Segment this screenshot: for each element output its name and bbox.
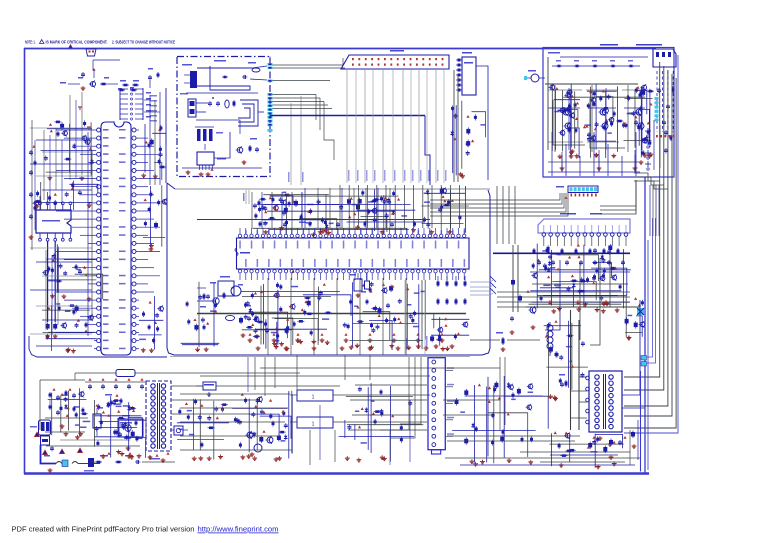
left board vertical wires	[32, 120, 92, 336]
top border connector stub	[86, 49, 96, 56]
tuner area components	[529, 244, 631, 314]
bridge rectifier cluster	[48, 388, 90, 439]
cyan connector strip CN203	[268, 57, 273, 132]
under IC201 right lower	[430, 317, 469, 351]
EEPROM bus wires	[40, 192, 58, 338]
IC101 left pin wires	[56, 130, 94, 333]
CC caps trio	[195, 127, 223, 141]
CC micro IC U701	[197, 152, 226, 176]
RGB bus to CRT board	[430, 193, 568, 216]
CRT extra parts	[555, 90, 645, 155]
ferrite bead B601	[524, 70, 545, 82]
right border inner line	[647, 240, 649, 470]
degauss relay part	[470, 332, 540, 351]
main board outline left edge	[167, 183, 175, 189]
wire from U301 right	[476, 66, 488, 180]
pre-video cluster above IC201	[252, 189, 410, 236]
CRT spark gap cluster	[645, 120, 673, 170]
power board top rail	[170, 356, 470, 358]
regulator IC901	[196, 382, 228, 396]
rail above IC201	[197, 219, 430, 221]
tuner bundle from board	[497, 186, 515, 218]
IC101 right pin wires	[139, 138, 160, 292]
CC transistor Q701	[236, 138, 259, 164]
bridge area vertical chains	[45, 388, 88, 432]
IC102 EEPROM	[36, 202, 72, 241]
IC101 right lower cluster	[138, 296, 163, 352]
upper mid extra verticals	[305, 188, 390, 228]
power top rail	[40, 373, 85, 430]
power section vertical labels	[344, 420, 356, 440]
power mosfet Q901	[118, 415, 138, 450]
warning triangles AC area	[34, 432, 82, 455]
vertical deflection cluster	[339, 383, 424, 462]
crystal X202	[350, 273, 370, 297]
schematic outer border	[24, 48, 656, 50]
tuner extra 2	[538, 247, 627, 307]
AC small parts	[44, 446, 54, 472]
fuse F901	[56, 462, 100, 464]
CRT board cap row	[556, 60, 634, 67]
bottom long rail	[352, 395, 500, 422]
upper-left long verticals	[70, 92, 82, 180]
board edge exit wires	[470, 280, 493, 295]
lower bus to right edge	[497, 292, 630, 307]
audio vertical feeds	[248, 357, 275, 396]
left components cluster B	[33, 181, 98, 210]
under-IC201 left cluster	[242, 316, 292, 351]
bus to CRT right	[600, 180, 636, 214]
below FBT cluster	[549, 431, 623, 469]
svg-text:NOTE: 1.: NOTE: 1.	[25, 40, 36, 45]
svg-text:2. SUBJECT TO CHANGE WITHOUT N: 2. SUBJECT TO CHANGE WITHOUT NOTICE	[112, 40, 175, 45]
left components cluster C	[42, 244, 102, 301]
CRT board labels	[548, 44, 662, 54]
above IC201 left verticals	[252, 192, 302, 228]
left board outline bottom	[29, 336, 167, 357]
power extra rails	[46, 440, 140, 446]
resistor grid under IC201 right	[437, 276, 467, 305]
left components cluster D	[42, 303, 97, 353]
bottom right extra cluster wires	[540, 420, 638, 465]
left border component chain	[29, 145, 37, 239]
CC concentric loops	[238, 100, 264, 126]
svg-text:1: 1	[312, 395, 315, 401]
heater wires	[447, 435, 580, 437]
mid power verticals	[310, 400, 410, 465]
above IC201 left extra	[257, 192, 339, 232]
filter box FL902	[290, 417, 352, 428]
CRT socket connector	[653, 49, 676, 67]
B+ rail wires	[171, 386, 340, 414]
IC drive vertical DIP U301	[456, 52, 476, 95]
rail above IC201 components	[259, 221, 395, 227]
above IC201 right extra	[347, 190, 425, 232]
bottom right long rails	[445, 452, 640, 465]
main board outline top edge	[175, 188, 490, 190]
flyback transformer T601	[586, 371, 622, 446]
blue pair to cyan squares	[647, 218, 656, 363]
svg-text:http://www.fineprint.com: http://www.fineprint.com	[198, 525, 279, 534]
mid-left column cluster	[143, 185, 167, 251]
opto coupler PC901	[170, 426, 188, 435]
tuner down wires	[545, 258, 600, 345]
SMPS primary cluster	[95, 396, 146, 459]
tuner extra parts	[530, 248, 630, 304]
CRT amp stage R cluster	[549, 83, 581, 158]
red T marks near CN203	[78, 107, 91, 130]
switching transformer T901	[146, 381, 171, 462]
tuner left dark verticals	[510, 245, 536, 334]
CRT amp stage G cluster	[587, 85, 624, 158]
video bus branch	[425, 116, 430, 186]
filter box FL901	[290, 390, 352, 401]
close-caption sub-board dash-dot outline	[177, 57, 270, 177]
wires between IC101 and CC box	[144, 92, 160, 185]
IC201 jungle IC	[235, 228, 469, 280]
resonator cluster	[141, 124, 166, 180]
FBT left edge parts	[559, 374, 568, 387]
right edge cluster	[625, 295, 645, 340]
lower bus wires	[200, 368, 500, 376]
STR power IC box	[118, 419, 143, 437]
CRT socket cyan pins	[655, 97, 659, 122]
key matrix ladder SW101-SW107	[120, 80, 151, 120]
IC201 pin number marks	[245, 230, 465, 234]
degauss coil	[547, 320, 558, 356]
CC line-in loop circuit	[197, 60, 267, 90]
connector CN201 (AV input)	[341, 50, 449, 69]
CC wire web	[182, 93, 262, 174]
left lower extra	[46, 248, 58, 335]
CRT amp stage B cluster	[624, 84, 655, 158]
IC101 microcontroller	[94, 122, 139, 355]
close caption output wires	[273, 58, 346, 160]
power rails extra	[180, 394, 292, 450]
CRT board outline	[543, 48, 674, 178]
tuner connector CN401	[538, 213, 630, 246]
left vertical feeds	[297, 355, 505, 430]
wires left of CN601	[380, 357, 421, 438]
below IC201 extra 2	[256, 286, 327, 345]
sound IF cluster	[450, 101, 485, 178]
transistor Q101 cluster	[60, 60, 137, 91]
primary extra	[94, 400, 137, 456]
cyan connector CN501	[556, 186, 598, 199]
cyan squares near FBT	[641, 356, 647, 367]
IF input cluster	[181, 282, 220, 352]
critical mark triangle on border	[68, 45, 73, 49]
board divider line	[165, 88, 167, 183]
svg-text:PDF created with FinePrint pdf: PDF created with FinePrint pdfFactory Pr…	[12, 525, 195, 534]
CC mid connector	[180, 93, 210, 117]
CC line-in connector	[182, 64, 197, 88]
video components under IC201 left	[241, 282, 351, 346]
IC201 bottom long wires	[268, 278, 406, 355]
line caps row	[85, 378, 145, 389]
AC line filter L901	[75, 370, 300, 377]
CC mid caps	[208, 97, 236, 108]
bundle staircase from CRT board	[634, 173, 668, 189]
audio transistors	[246, 430, 274, 456]
above IC201 extra parts	[253, 195, 329, 234]
degauss thermistor cluster	[90, 452, 175, 464]
light drops below IC201	[405, 280, 428, 354]
cyan mark CN502	[637, 308, 644, 315]
right mid vertical bundle	[650, 185, 659, 236]
stage bottom drops	[562, 150, 635, 172]
CRT feed wire bundle	[624, 55, 678, 433]
IC201 top pin wires	[340, 185, 460, 228]
CRT socket pin field	[656, 71, 675, 137]
degauss cluster	[544, 321, 588, 401]
left board extra verticals 2	[44, 128, 62, 210]
main board right hatch	[490, 276, 496, 282]
focus wires	[622, 300, 640, 395]
IF input wires with labels	[243, 190, 249, 204]
AC line filter inlet	[30, 420, 51, 445]
left board horizontal wires	[30, 128, 92, 346]
sync cluster above IC201 right	[421, 186, 468, 234]
extra CRT stage wires	[555, 85, 644, 172]
below IC201 extra parts	[349, 282, 423, 349]
vertical bundle to tuner	[497, 218, 515, 244]
ground rail under IC201	[197, 313, 466, 315]
FBT feed dark verticals	[571, 310, 588, 430]
CC wire drops	[288, 96, 304, 185]
dark wire pair down	[453, 70, 455, 182]
CRT board rails 2	[548, 66, 648, 142]
blue vertical to bottom border	[640, 371, 642, 472]
left board label column	[150, 95, 157, 122]
CN601 left rails	[348, 385, 427, 430]
left components cluster A	[41, 121, 97, 181]
east of CN601 cluster	[452, 376, 548, 466]
CRT right column parts	[634, 86, 645, 164]
connector CN601	[428, 358, 454, 454]
video components under IC201 mid	[343, 280, 434, 350]
redmark ground row under IC201	[248, 333, 445, 342]
audio output cluster	[232, 391, 292, 462]
CRT board loop wires	[545, 57, 648, 172]
degauss thermistor cyan part	[62, 458, 94, 472]
IF amp transistor Q201	[197, 270, 295, 338]
svg-text:IS MARK OF CRITICAL COMPONENT.: IS MARK OF CRITICAL COMPONENT.	[46, 40, 108, 45]
main board outline right edge	[482, 190, 490, 355]
SAW filter Z201	[218, 276, 243, 296]
AC thick blue feed	[41, 445, 57, 464]
B+ rail to tuner	[493, 252, 630, 254]
video bus wire	[270, 115, 425, 117]
primary big cap	[93, 404, 101, 436]
FBT bottom components	[609, 431, 637, 460]
secondary rectifier cluster	[177, 399, 229, 461]
snubber diode cluster	[105, 394, 123, 407]
capacitor cluster C105	[148, 68, 160, 88]
tuner bottom rail	[526, 306, 640, 308]
under IC201 more grounds	[256, 344, 455, 350]
svg-text:1: 1	[312, 422, 315, 428]
AV input wires	[347, 70, 447, 183]
CRT board bottom wires	[552, 132, 636, 176]
